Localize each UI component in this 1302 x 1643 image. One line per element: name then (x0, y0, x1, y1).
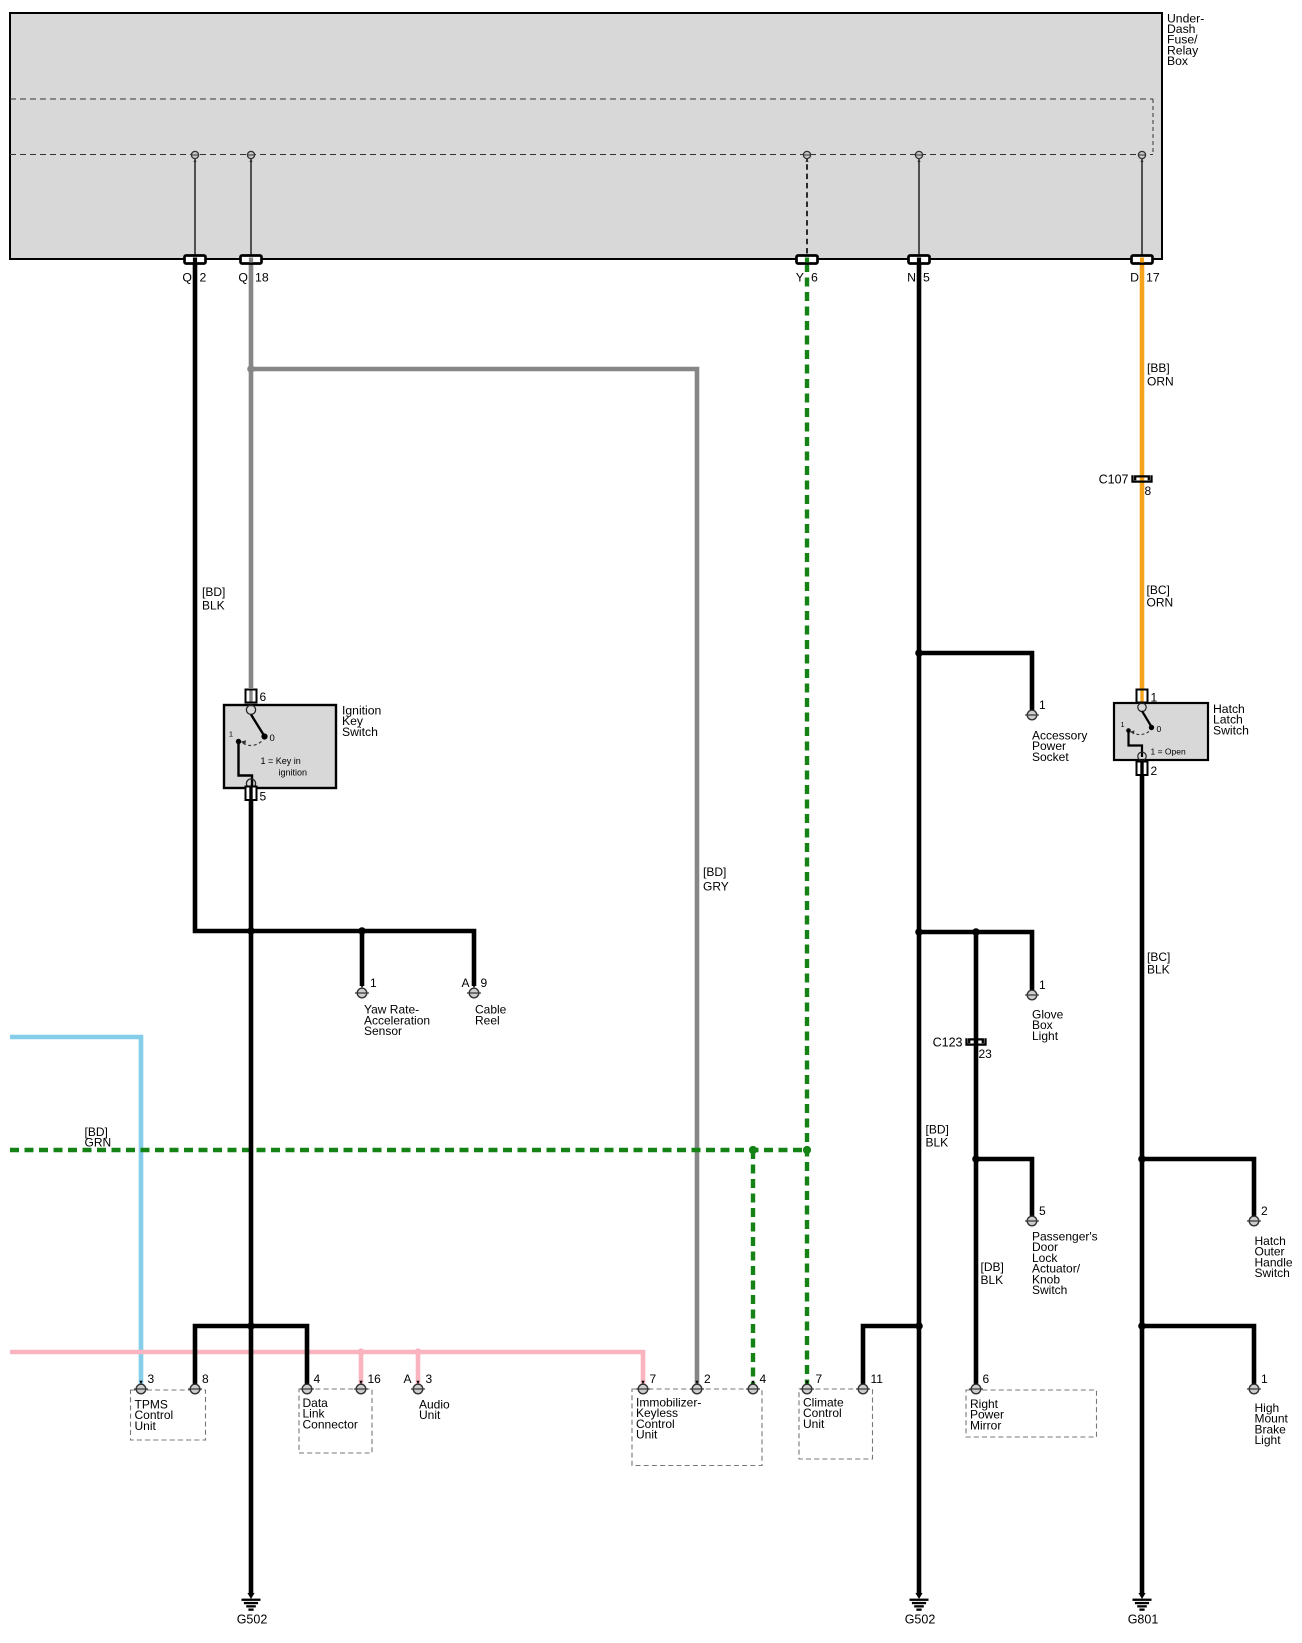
svg-text:Reel: Reel (475, 1013, 500, 1027)
svg-text:BLK: BLK (981, 1273, 1004, 1287)
svg-text:Light: Light (1032, 1029, 1059, 1043)
svg-text:C123: C123 (933, 1036, 963, 1050)
svg-text:7: 7 (650, 1372, 657, 1386)
svg-text:7: 7 (816, 1372, 823, 1386)
svg-text:1: 1 (1261, 1372, 1268, 1386)
svg-text:3: 3 (426, 1372, 433, 1386)
svg-text:D: D (1130, 271, 1139, 285)
svg-text:2: 2 (1151, 764, 1158, 778)
svg-text:Switch: Switch (1032, 1283, 1067, 1297)
svg-text:ORN: ORN (1147, 375, 1174, 389)
svg-text:[BD]: [BD] (202, 585, 225, 599)
svg-text:G502: G502 (237, 1613, 268, 1627)
svg-text:5: 5 (260, 790, 267, 804)
svg-text:Y: Y (796, 271, 804, 285)
svg-text:23: 23 (979, 1047, 993, 1061)
svg-text:GRY: GRY (703, 880, 729, 894)
svg-text:1: 1 (1039, 698, 1046, 712)
svg-text:[DB]: [DB] (981, 1260, 1004, 1274)
svg-text:16: 16 (368, 1372, 382, 1386)
svg-text:4: 4 (314, 1372, 321, 1386)
svg-text:BLK: BLK (1147, 963, 1170, 977)
svg-text:1: 1 (1039, 978, 1046, 992)
svg-text:4: 4 (760, 1372, 767, 1386)
svg-text:Unit: Unit (803, 1417, 825, 1431)
svg-text:6: 6 (983, 1372, 990, 1386)
svg-text:11: 11 (871, 1372, 884, 1386)
svg-text:Light: Light (1255, 1433, 1282, 1447)
svg-text:2: 2 (1261, 1204, 1268, 1218)
svg-text:Unit: Unit (135, 1419, 157, 1433)
svg-text:Switch: Switch (342, 725, 378, 739)
svg-text:Q: Q (182, 271, 192, 285)
svg-text:G801: G801 (1128, 1613, 1159, 1627)
svg-text:17: 17 (1146, 271, 1160, 285)
svg-text:Sensor: Sensor (364, 1024, 402, 1038)
svg-text:Box: Box (1167, 54, 1188, 68)
svg-text:[BD]: [BD] (703, 865, 726, 879)
svg-text:A: A (461, 976, 469, 990)
svg-text:6: 6 (260, 690, 267, 704)
svg-text:G502: G502 (905, 1613, 936, 1627)
svg-text:2: 2 (200, 271, 207, 285)
svg-text:ignition: ignition (279, 768, 308, 778)
svg-text:5: 5 (923, 271, 930, 285)
svg-text:C107: C107 (1099, 473, 1129, 487)
svg-text:Socket: Socket (1032, 750, 1069, 764)
svg-text:BLK: BLK (926, 1136, 949, 1150)
svg-text:1: 1 (229, 730, 233, 739)
svg-text:2: 2 (704, 1372, 711, 1386)
svg-text:Unit: Unit (419, 1408, 441, 1422)
svg-text:18: 18 (255, 271, 269, 285)
svg-text:9: 9 (481, 976, 488, 990)
svg-text:Switch: Switch (1255, 1266, 1290, 1280)
svg-text:N: N (907, 271, 916, 285)
svg-text:0: 0 (1157, 724, 1162, 734)
svg-text:A: A (403, 1372, 411, 1386)
svg-text:Mirror: Mirror (970, 1418, 1001, 1432)
svg-text:BLK: BLK (202, 599, 225, 613)
svg-text:1 = Key in: 1 = Key in (261, 756, 301, 766)
svg-text:0: 0 (270, 733, 275, 744)
svg-text:ORN: ORN (1147, 596, 1174, 610)
svg-text:1 = Open: 1 = Open (1151, 747, 1186, 757)
svg-text:Unit: Unit (636, 1428, 658, 1442)
svg-text:3: 3 (148, 1372, 155, 1386)
svg-text:[BD]: [BD] (926, 1123, 949, 1137)
svg-text:GRN: GRN (85, 1136, 112, 1150)
svg-text:5: 5 (1039, 1204, 1046, 1218)
svg-text:Connector: Connector (303, 1417, 358, 1431)
svg-text:Q: Q (238, 271, 248, 285)
svg-text:6: 6 (811, 271, 818, 285)
svg-text:Switch: Switch (1213, 723, 1249, 737)
svg-text:8: 8 (1145, 484, 1152, 498)
svg-text:[BB]: [BB] (1147, 361, 1170, 375)
svg-text:1: 1 (1121, 722, 1125, 729)
svg-text:8: 8 (202, 1372, 209, 1386)
svg-text:1: 1 (370, 976, 377, 990)
